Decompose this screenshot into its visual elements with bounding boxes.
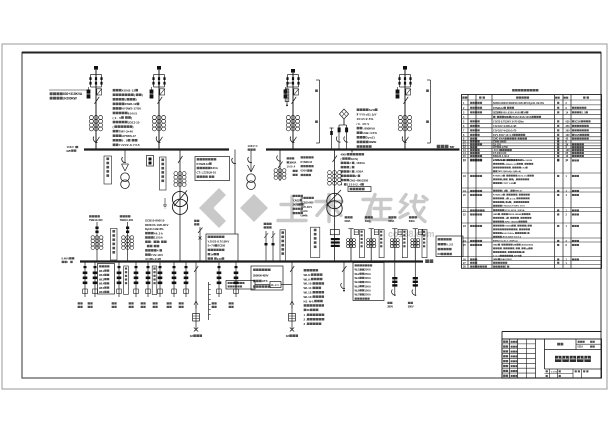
svg-text:630A: 630A <box>301 169 308 173</box>
svg-text:KYN28-12: KYN28-12 <box>197 162 210 166</box>
svg-text:WL5: WL5 <box>99 286 105 290</box>
svg-text:WL6: WL6 <box>99 290 105 294</box>
svg-text:3×70: 3×70 <box>293 203 299 207</box>
svg-text:WL8:: WL8: <box>304 273 311 277</box>
svg-text::: : <box>151 240 152 244</box>
svg-text:WL4: WL4 <box>99 282 105 286</box>
svg-text:CT/PT 0.2S: CT/PT 0.2S <box>502 183 514 185</box>
svg-text:350: 350 <box>566 125 571 128</box>
svg-text:XGN2-12: XGN2-12 <box>122 89 136 93</box>
svg-text:WL1: WL1 <box>99 269 105 273</box>
svg-text:): ) <box>133 125 134 129</box>
svg-text:SC25: SC25 <box>574 134 580 137</box>
svg-text:MNS: MNS <box>504 116 509 119</box>
svg-text:YJV22-8.7/15KV 3×70 630m: YJV22-8.7/15KV 3×70 630m <box>493 120 524 123</box>
svg-text:SZ9: SZ9 <box>369 108 375 112</box>
svg-text:(: ( <box>134 93 135 97</box>
svg-text:250A/160A/100A: 250A/160A/100A <box>511 116 531 119</box>
svg-text:HY5WS-17/50: HY5WS-17/50 <box>122 107 142 111</box>
svg-text:250A: 250A <box>365 294 371 297</box>
svg-text:WL10:: WL10: <box>304 282 313 286</box>
svg-text:(: ( <box>113 125 114 129</box>
svg-text:TMY: TMY <box>450 145 455 149</box>
svg-text:1#: 1# <box>210 252 214 256</box>
svg-text:KYN28-12: KYN28-12 <box>301 160 313 164</box>
svg-text:,50/5,: ,50/5, <box>509 198 517 200</box>
svg-text:800A,630A,400A: 800A,630A,400A <box>501 111 521 114</box>
svg-text:10/0.4: 10/0.4 <box>287 165 296 169</box>
svg-text:SC100: SC100 <box>574 120 581 123</box>
svg-text:630A: 630A <box>365 219 371 223</box>
svg-text:YJV22: YJV22 <box>293 198 301 202</box>
svg-text:JDZJ-10: JDZJ-10 <box>128 120 140 124</box>
svg-text:,N/PE: ,N/PE <box>513 256 520 258</box>
svg-text:): ) <box>131 116 132 120</box>
svg-text:10KV II: 10KV II <box>248 144 258 148</box>
svg-text:DW15-1600A,: DW15-1600A, <box>508 213 522 216</box>
svg-text:400A: 400A <box>365 277 371 280</box>
svg-text:): ) <box>142 93 143 97</box>
svg-text:630A: 630A <box>409 219 415 223</box>
svg-text:260: 260 <box>566 129 571 132</box>
svg-text:KYN28-12: KYN28-12 <box>493 160 504 162</box>
svg-text:/0.4KV: /0.4KV <box>357 122 370 126</box>
svg-text:),: ), <box>511 202 514 204</box>
svg-text:(: ( <box>341 157 342 161</box>
svg-text:120: 120 <box>217 257 222 261</box>
svg-text:0.4KV: 0.4KV <box>62 257 70 261</box>
svg-text:0.5: 0.5 <box>122 139 128 143</box>
svg-text:WL9:: WL9: <box>304 277 311 281</box>
svg-text:3#: 3# <box>286 334 290 338</box>
svg-text:KVV-500V 10×1.5: KVV-500V 10×1.5 <box>493 134 514 137</box>
svg-text:10KV I: 10KV I <box>67 145 76 149</box>
svg-text:GGD2: GGD2 <box>493 214 499 216</box>
svg-text:LZZBJ9-10,: LZZBJ9-10, <box>504 164 517 166</box>
svg-text:GGD2: GGD2 <box>493 245 499 247</box>
svg-text:WL6: WL6 <box>355 289 361 292</box>
svg-text:(: ( <box>125 98 126 102</box>
svg-text:N1-N4:: N1-N4: <box>304 299 315 303</box>
svg-text:1×2.5: 1×2.5 <box>493 255 501 258</box>
svg-text:65AH/220V: 65AH/220V <box>500 258 512 261</box>
svg-text:Udk=4.5%: Udk=4.5% <box>363 131 378 135</box>
svg-text:WL2: WL2 <box>99 273 105 277</box>
svg-text:250A: 250A <box>365 273 371 276</box>
svg-text:1250/2.4: 1250/2.4 <box>347 183 362 187</box>
svg-text:WL1: WL1 <box>355 269 361 272</box>
svg-text:PJ: PJ <box>438 252 442 256</box>
svg-text:: 800KVA: : 800KVA <box>363 126 376 130</box>
svg-text:Dyn11: Dyn11 <box>366 136 376 140</box>
svg-text:YJV-1KV 4×120+1×70: YJV-1KV 4×120+1×70 <box>493 129 517 132</box>
svg-text:0.2S: 0.2S <box>446 242 453 246</box>
svg-text:3#: 3# <box>190 334 194 338</box>
svg-text:ATS: ATS <box>262 279 268 283</box>
svg-text:WL13:: WL13: <box>304 295 313 299</box>
svg-text:),: ), <box>513 179 516 181</box>
svg-text:YJV22-8.7/15: YJV22-8.7/15 <box>119 143 140 147</box>
svg-text:1:100: 1:100 <box>551 371 558 373</box>
svg-text:2.: 2. <box>304 318 307 322</box>
svg-text:WL3: WL3 <box>99 277 105 281</box>
svg-text:WL2: WL2 <box>355 273 361 276</box>
svg-text:, 1600A: , 1600A <box>355 161 365 165</box>
svg-text:600/5: 600/5 <box>128 111 138 115</box>
svg-text::KVV-500V 10×1.5: :KVV-500V 10×1.5 <box>502 236 522 239</box>
svg-text:KYN28-12: KYN28-12 <box>493 176 504 178</box>
svg-text:YJV22-8.7/15KV 3×70: YJV22-8.7/15KV 3×70 <box>502 205 525 208</box>
svg-text:100A: 100A <box>365 289 371 292</box>
svg-text:630A: 630A <box>388 219 394 223</box>
svg-text:ZN63A-12/630: ZN63A-12/630 <box>517 159 532 162</box>
svg-text:3×200KW: 3×200KW <box>63 97 78 101</box>
svg-text:XL-2-1: XL-2-1 <box>271 285 279 287</box>
svg-text:630+315KVA: 630+315KVA <box>63 92 83 96</box>
svg-text:380V: 380V <box>408 304 414 308</box>
svg-text:JDZJ-10,: JDZJ-10, <box>517 176 527 178</box>
svg-text:),: ), <box>507 191 511 193</box>
svg-text:LMY: LMY <box>67 149 72 153</box>
svg-text:WL5: WL5 <box>355 285 361 288</box>
svg-text:3.: 3. <box>304 322 307 326</box>
svg-text:400V/50Hz,: 400V/50Hz, <box>502 232 515 235</box>
svg-text:400: 400 <box>566 134 571 137</box>
svg-text:1600A(: 1600A( <box>504 225 512 228</box>
svg-text:1.: 1. <box>304 313 307 317</box>
svg-text:400V: 400V <box>341 153 347 157</box>
svg-text:ZN28-12: ZN28-12 <box>125 102 137 106</box>
svg-text::SPD 1600/4,: :SPD 1600/4, <box>504 221 519 224</box>
svg-text:TMY-3×40: TMY-3×40 <box>119 129 134 133</box>
svg-text:100A: 100A <box>365 285 371 288</box>
svg-text:TBB10-300: TBB10-300 <box>89 218 103 222</box>
svg-text:HY5WS-17: HY5WS-17 <box>122 134 137 138</box>
svg-text:GGD2: GGD2 <box>493 111 499 114</box>
svg-text:WL12:: WL12: <box>304 291 313 295</box>
svg-text:KYN28-12: KYN28-12 <box>493 195 504 197</box>
svg-text:BSMJ0.4-30-3, 300Kvar: BSMJ0.4-30-3, 300Kvar <box>493 240 518 243</box>
svg-text:WL3: WL3 <box>355 277 361 280</box>
svg-text:1.5: 1.5 <box>582 111 587 114</box>
svg-text:250A: 250A <box>365 269 371 272</box>
svg-text:YJV-1KV 4×185+1×95: YJV-1KV 4×185+1×95 <box>493 125 517 128</box>
svg-text:630: 630 <box>566 120 571 123</box>
svg-text:0216: 0216 <box>578 346 584 349</box>
svg-text:10±2×2.5%: 10±2×2.5% <box>357 117 374 121</box>
svg-text:KYN28-12: KYN28-12 <box>493 107 504 110</box>
svg-text:WL4: WL4 <box>355 281 361 284</box>
svg-text:(0.5: (0.5 <box>113 116 122 120</box>
svg-text:SC10-30/10, 30KVA: SC10-30/10, 30KVA <box>504 209 525 212</box>
svg-text:₮ YY0-d11 Δ/Y: ₮ YY0-d11 Δ/Y <box>357 113 377 117</box>
svg-text:250KW 400V: 250KW 400V <box>253 274 268 278</box>
svg-text:30KVA: 30KVA <box>289 161 296 165</box>
svg-text:WL7: WL7 <box>355 294 361 297</box>
svg-text:WL11:: WL11: <box>304 286 313 290</box>
svg-text:630A: 630A <box>345 219 351 223</box>
svg-text:ONAN: ONAN <box>369 140 377 144</box>
svg-text:TBB10-300: TBB10-300 <box>120 218 134 222</box>
svg-text:SCB10-800/10 800KVA 10/0.4KV D: SCB10-800/10 800KVA 10/0.4KV Dyn11 Ud=6% <box>493 102 545 105</box>
svg-text:TMY-3×: TMY-3× <box>515 190 523 193</box>
svg-text:): ) <box>136 98 137 102</box>
svg-text:380V: 380V <box>387 304 393 308</box>
svg-text:3×70: 3×70 <box>208 244 216 248</box>
svg-text:160A: 160A <box>365 281 371 284</box>
svg-text:CT: LZZBJ9-10: CT: LZZBJ9-10 <box>197 171 217 175</box>
svg-text:TMY-3(40×4)+1(40×4): TMY-3(40×4)+1(40×4) <box>497 170 521 173</box>
svg-text:,400A/250A: ,400A/250A <box>521 244 534 247</box>
svg-text:SC100: SC100 <box>217 244 225 248</box>
svg-text:BSMJ0.4-30-3: BSMJ0.4-30-3 <box>493 155 510 158</box>
